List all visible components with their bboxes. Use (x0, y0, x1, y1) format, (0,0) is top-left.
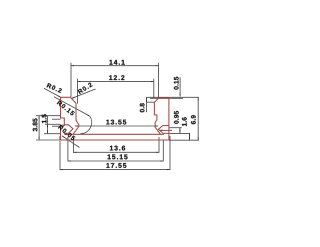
dim 12.2 ext right (153, 79, 155, 99)
dim 13.6 ext left (72, 137, 74, 153)
label 17.55 (106, 163, 126, 168)
dim 15.15 line (68, 160, 163, 162)
label 0.95 (174, 111, 179, 124)
ext bottom right (169, 139, 199, 141)
label 1.5 (42, 114, 47, 123)
right wall top edge chamfer inner wall with step (154, 98, 169, 134)
label R0.15 (57, 100, 75, 115)
bottom plate top (64, 133, 164, 135)
ext 0.95 bottom 1.6 top (170, 132, 191, 134)
dim 13.6 line (73, 151, 159, 153)
label 1.6 (182, 117, 187, 126)
dim 15.15 ext left (67, 137, 69, 162)
bottom plate bottom and left lip (60, 136, 169, 140)
leader R0.05 diagonal (62, 136, 80, 148)
dim 0.95 line (179, 128, 181, 134)
ext groove bottom stub (52, 125, 64, 127)
left wall outer with groove (61, 97, 65, 140)
ext 0.8 bottom (147, 101, 156, 103)
ext groove top stub (52, 118, 61, 120)
leader R0.2 first (44, 88, 61, 97)
dim 0.8 line (146, 97, 148, 112)
ext top right level (147, 96, 199, 98)
dim 14.1 ext right (158, 63, 160, 98)
label R0.2 (78, 83, 93, 94)
dim 0.8 bottom arrow (146, 100, 148, 102)
dim 6.9 line (197, 98, 199, 141)
label R0.05 (58, 125, 76, 140)
dim 3.85 line (38, 116, 40, 140)
label 6.9 (191, 115, 196, 124)
ext barb line (160, 129, 173, 131)
ext 0.95 top (170, 127, 182, 129)
label 13.6 (110, 146, 125, 151)
dim 14.1 ext left (70, 63, 72, 97)
label R0.2 (47, 83, 62, 93)
dim 1.5 line tail (47, 116, 49, 124)
leader R0.15 diagonal (54, 97, 90, 117)
dim 17.55 ext left (59, 141, 61, 170)
dim 1.5 line (47, 124, 49, 133)
label 0.15 (174, 77, 179, 90)
label 14.1 (109, 60, 124, 65)
ext bottom of 1.5 (45, 123, 61, 125)
label 13.55 (106, 120, 126, 125)
left wall top edge chamfer inner wall (61, 97, 79, 134)
dim 12.2 ext left (77, 79, 79, 104)
dim 12.2 line (78, 81, 154, 83)
ext 1.5 bottom plate top (44, 133, 61, 135)
label 12.2 (109, 75, 124, 80)
dim 17.55 ext right (169, 136, 171, 170)
label 0.8 (140, 103, 145, 112)
dim 1.6 line (189, 133, 191, 140)
right hook barb (158, 126, 169, 134)
ext right top edge level (150, 97, 183, 99)
dim 0.15 leader (179, 77, 181, 96)
ext bottom left (36, 139, 60, 141)
dim 13.55 line (75, 125, 158, 127)
right wall outer (168, 98, 170, 140)
dim 14.1 line (71, 65, 159, 67)
dim 13.6 ext right (158, 137, 160, 153)
dim 17.55 line (60, 169, 170, 171)
dim 15.15 ext right (162, 141, 164, 162)
label 3.85 (33, 118, 38, 131)
ext top of 3.85 and 1.5 (36, 115, 61, 117)
dim 0.8 top arrow (146, 98, 148, 100)
left hook barb (64, 125, 73, 134)
leader arc R0.15 (81, 116, 92, 134)
leader R0.2 second (71, 89, 96, 99)
label 15.15 (108, 155, 128, 160)
